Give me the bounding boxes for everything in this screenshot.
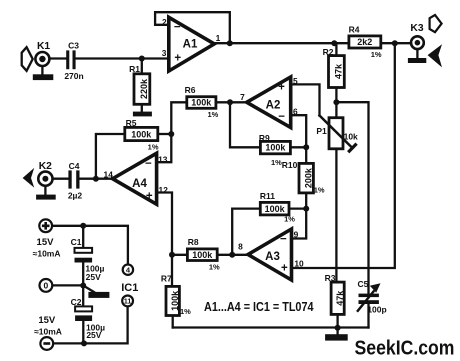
svg-text:SeekIC.com: SeekIC.com	[355, 336, 455, 359]
svg-text:270n: 270n	[64, 71, 83, 81]
svg-text:14: 14	[104, 170, 114, 180]
svg-text:R5: R5	[126, 118, 137, 128]
svg-text:R2: R2	[323, 47, 334, 57]
svg-text:≈10mA: ≈10mA	[33, 249, 61, 259]
svg-text:11: 11	[124, 299, 132, 306]
svg-text:IC1: IC1	[121, 282, 138, 294]
svg-text:25V: 25V	[86, 330, 101, 340]
svg-text:−: −	[174, 22, 181, 34]
svg-text:≈10mA: ≈10mA	[34, 327, 62, 337]
svg-text:K1: K1	[37, 41, 50, 52]
svg-text:2k2: 2k2	[357, 37, 372, 47]
svg-text:A1...A4 = IC1 = TL074: A1...A4 = IC1 = TL074	[204, 299, 314, 314]
svg-text:−: −	[278, 111, 285, 123]
svg-text:+: +	[146, 191, 153, 203]
svg-text:+: +	[174, 53, 181, 65]
svg-text:R1: R1	[129, 64, 140, 74]
svg-text:100p: 100p	[367, 305, 386, 315]
svg-text:P1: P1	[316, 126, 327, 136]
svg-text:7: 7	[240, 92, 245, 102]
svg-text:25V: 25V	[86, 272, 101, 282]
svg-text:100k: 100k	[131, 130, 152, 140]
svg-text:1%: 1%	[284, 215, 295, 224]
svg-text:1%: 1%	[180, 307, 191, 316]
svg-text:+: +	[278, 82, 285, 94]
svg-text:5: 5	[293, 76, 298, 86]
svg-text:6: 6	[293, 107, 298, 117]
svg-text:200k: 200k	[303, 167, 313, 188]
svg-text:1%: 1%	[209, 263, 220, 272]
svg-text:100k: 100k	[265, 143, 286, 153]
svg-text:9: 9	[294, 229, 299, 239]
svg-text:A1: A1	[183, 39, 198, 51]
svg-text:R6: R6	[185, 85, 196, 95]
svg-text:R7: R7	[161, 274, 172, 284]
svg-text:47k: 47k	[334, 63, 344, 79]
svg-text:100k: 100k	[192, 250, 213, 260]
svg-text:C3: C3	[68, 40, 79, 50]
svg-text:15V: 15V	[38, 315, 56, 326]
svg-text:47k: 47k	[335, 290, 345, 306]
svg-text:2: 2	[162, 17, 167, 27]
svg-text:K2: K2	[39, 161, 52, 172]
svg-text:100k: 100k	[191, 98, 212, 108]
svg-text:1%: 1%	[148, 143, 159, 152]
svg-text:8: 8	[238, 242, 243, 252]
svg-text:C5: C5	[357, 279, 368, 289]
svg-text:R11: R11	[260, 191, 275, 201]
svg-text:10k: 10k	[344, 132, 358, 142]
svg-text:1%: 1%	[371, 50, 382, 59]
svg-text:1%: 1%	[271, 158, 282, 167]
svg-text:13: 13	[158, 155, 168, 165]
svg-text:A3: A3	[265, 251, 280, 263]
svg-text:C1: C1	[71, 237, 82, 247]
svg-text:1%: 1%	[314, 186, 325, 195]
svg-text:R10: R10	[282, 160, 298, 170]
svg-text:10: 10	[294, 259, 304, 269]
svg-text:220k: 220k	[139, 78, 149, 99]
svg-text:100k: 100k	[170, 290, 180, 311]
svg-text:R4: R4	[349, 25, 360, 35]
svg-text:3: 3	[162, 48, 167, 58]
svg-text:2µ2: 2µ2	[68, 191, 83, 201]
svg-text:K3: K3	[410, 23, 423, 34]
svg-text:12: 12	[159, 185, 169, 195]
svg-text:−: −	[280, 233, 287, 245]
svg-text:1%: 1%	[207, 110, 218, 119]
svg-text:R8: R8	[188, 237, 199, 247]
svg-text:R9: R9	[259, 133, 270, 143]
svg-text:0: 0	[44, 281, 49, 291]
svg-text:R3: R3	[325, 273, 336, 283]
svg-text:A2: A2	[266, 100, 281, 112]
svg-text:−: −	[145, 158, 152, 170]
svg-text:100k: 100k	[265, 204, 286, 214]
svg-text:A4: A4	[132, 178, 147, 190]
svg-text:C2: C2	[71, 297, 82, 307]
svg-text:C4: C4	[69, 161, 80, 171]
svg-text:15V: 15V	[37, 237, 55, 248]
svg-text:1: 1	[216, 33, 221, 43]
svg-text:+: +	[281, 263, 288, 275]
